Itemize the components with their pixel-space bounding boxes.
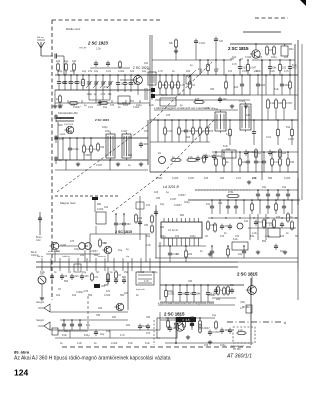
svg-text:33: 33: [205, 235, 208, 238]
svg-text:470: 470: [146, 332, 151, 335]
svg-text:47k: 47k: [228, 70, 233, 73]
svg-text:33: 33: [176, 253, 179, 256]
svg-text:120: 120: [154, 191, 159, 194]
svg-text:1µ: 1µ: [172, 156, 175, 159]
svg-text:470: 470: [220, 235, 225, 238]
svg-text:(7W): (7W): [240, 302, 245, 304]
svg-text:68k: 68k: [195, 130, 200, 133]
svg-text:Magnó rész: Magnó rész: [60, 201, 76, 205]
svg-text:2 SC 1815: 2 SC 1815: [228, 46, 249, 51]
svg-text:330: 330: [210, 88, 215, 91]
svg-text:100µ: 100µ: [84, 334, 90, 337]
svg-text:a pontvonallal bekeretezett ré: a pontvonallal bekeretezett rész a hangs…: [158, 302, 215, 305]
svg-text:10µ: 10µ: [58, 70, 63, 73]
svg-text:220: 220: [220, 177, 225, 180]
svg-text:100: 100: [133, 83, 138, 86]
svg-text:2.2k: 2.2k: [188, 156, 193, 159]
svg-text:10k: 10k: [226, 148, 231, 151]
svg-text:2 SC 1815: 2 SC 1815: [115, 230, 132, 234]
svg-text:Rádió rész: Rádió rész: [66, 27, 81, 31]
svg-text:a hálózati szaggatott vonallal: a hálózati szaggatott vonallal jelölt ré…: [154, 107, 215, 110]
svg-text:100µ: 100µ: [210, 224, 216, 227]
svg-text:8.2k: 8.2k: [274, 88, 279, 91]
svg-text:10µ: 10µ: [160, 203, 165, 206]
svg-text:0.01: 0.01: [88, 106, 93, 109]
svg-text:33: 33: [58, 288, 61, 291]
svg-text:0.01: 0.01: [260, 84, 265, 87]
svg-text:0.022: 0.022: [239, 100, 246, 103]
svg-text:8.2k: 8.2k: [40, 271, 45, 274]
svg-text:1µ: 1µ: [93, 148, 96, 151]
svg-text:1k: 1k: [118, 106, 121, 109]
svg-text:15k: 15k: [112, 316, 117, 319]
svg-text:330: 330: [144, 224, 149, 227]
svg-text:100: 100: [204, 177, 209, 180]
svg-text:100µ: 100µ: [102, 126, 108, 129]
svg-text:0.022: 0.022: [248, 151, 255, 154]
svg-text:1k: 1k: [60, 342, 63, 345]
svg-text:100µ: 100µ: [190, 235, 196, 238]
svg-text:8.2k: 8.2k: [128, 342, 133, 345]
svg-text:15k: 15k: [250, 235, 255, 238]
svg-text:4.7k: 4.7k: [158, 70, 163, 73]
svg-text:0.047: 0.047: [170, 198, 177, 201]
svg-text:10µ: 10µ: [64, 60, 69, 63]
svg-text:0.0047: 0.0047: [212, 331, 220, 334]
svg-text:LA 3201 B: LA 3201 B: [163, 185, 179, 189]
svg-text:4.7: 4.7: [240, 307, 244, 310]
svg-text:100: 100: [186, 70, 191, 73]
svg-text:47k: 47k: [146, 204, 151, 207]
svg-text:0.0047: 0.0047: [90, 250, 98, 253]
svg-text:8.2k: 8.2k: [62, 334, 67, 337]
svg-text:120: 120: [258, 56, 263, 59]
svg-text:100µ: 100µ: [220, 344, 226, 347]
svg-text:Mikr: Mikr: [97, 203, 102, 206]
svg-text:0.047: 0.047: [288, 138, 295, 141]
svg-text:470: 470: [209, 130, 214, 133]
svg-text:4.7k: 4.7k: [180, 84, 185, 87]
svg-text:2 SC 1815: 2 SC 1815: [237, 271, 258, 276]
svg-text:33: 33: [59, 159, 62, 162]
svg-text:0.01: 0.01: [167, 130, 172, 133]
svg-text:FM ant: FM ant: [37, 36, 44, 39]
svg-text:4.7k: 4.7k: [120, 334, 125, 337]
svg-text:33: 33: [104, 242, 107, 245]
svg-text:470: 470: [110, 104, 115, 107]
svg-text:1µ: 1µ: [126, 248, 129, 251]
svg-text:10µ: 10µ: [118, 249, 123, 252]
svg-text:330: 330: [96, 314, 101, 317]
svg-text:10µ: 10µ: [82, 271, 87, 274]
svg-text:47k: 47k: [104, 86, 109, 89]
svg-text:15k: 15k: [108, 93, 113, 96]
svg-text:2.2k: 2.2k: [252, 177, 257, 180]
svg-text:0.0047: 0.0047: [202, 327, 210, 330]
svg-text:10µ: 10µ: [94, 70, 99, 73]
svg-text:100µ: 100µ: [152, 271, 158, 274]
svg-text:0.0047: 0.0047: [73, 106, 81, 109]
svg-text:220: 220: [56, 60, 61, 63]
svg-text:0.01: 0.01: [236, 177, 241, 180]
svg-text:0.022: 0.022: [245, 56, 252, 59]
svg-text:2.2k: 2.2k: [146, 244, 151, 247]
svg-text:0.022: 0.022: [156, 177, 163, 180]
svg-text:8.2k: 8.2k: [292, 64, 297, 67]
svg-text:220: 220: [126, 324, 131, 327]
svg-text:100: 100: [219, 40, 224, 43]
svg-text:0.0047: 0.0047: [174, 204, 182, 207]
svg-text:68k: 68k: [122, 276, 127, 279]
svg-text:MW: MW: [58, 124, 63, 127]
svg-text:0.022: 0.022: [133, 106, 140, 109]
svg-text:10µ: 10µ: [82, 70, 87, 73]
svg-text:8.2k: 8.2k: [149, 104, 154, 107]
svg-text:15k: 15k: [230, 284, 235, 287]
svg-text:TR1 BF: TR1 BF: [79, 48, 87, 50]
svg-text:0.022: 0.022: [72, 148, 79, 151]
svg-text:4.7k: 4.7k: [101, 93, 106, 96]
svg-text:10µ: 10µ: [142, 70, 147, 73]
svg-text:560: 560: [126, 223, 131, 226]
svg-text:47k: 47k: [94, 276, 99, 279]
svg-text:120: 120: [172, 327, 177, 330]
svg-text:4.7k: 4.7k: [226, 133, 231, 136]
svg-text:100: 100: [58, 106, 63, 109]
svg-text:1µ: 1µ: [258, 152, 261, 155]
svg-text:4.7k: 4.7k: [144, 280, 149, 283]
svg-text:15k: 15k: [64, 330, 69, 333]
svg-text:15k: 15k: [214, 108, 219, 111]
svg-text:hangsz.: hangsz.: [36, 301, 45, 304]
svg-text:0.0047: 0.0047: [178, 194, 186, 197]
svg-text:4.7k: 4.7k: [284, 70, 289, 73]
svg-text:1k: 1k: [290, 216, 293, 219]
svg-text:220: 220: [188, 253, 193, 256]
svg-text:560: 560: [88, 294, 93, 297]
svg-text:330: 330: [190, 316, 195, 319]
svg-text:100µ: 100µ: [105, 130, 111, 133]
svg-text:10µ: 10µ: [70, 70, 75, 73]
svg-text:1µ: 1µ: [128, 164, 131, 167]
svg-text:2 SC 1923: 2 SC 1923: [87, 41, 108, 46]
svg-text:0.01: 0.01: [106, 70, 111, 73]
svg-text:100µ: 100µ: [271, 56, 277, 59]
svg-text:220: 220: [74, 275, 79, 278]
svg-text:120: 120: [246, 114, 251, 117]
svg-text:AJ 1k 3x: AJ 1k 3x: [168, 228, 179, 232]
svg-text:220: 220: [254, 70, 259, 73]
svg-text:100: 100: [282, 152, 287, 155]
svg-text:100: 100: [143, 143, 148, 146]
svg-text:470: 470: [174, 84, 179, 87]
svg-text:8.2k: 8.2k: [270, 70, 275, 73]
svg-text:1k: 1k: [110, 271, 113, 274]
svg-text:10k: 10k: [56, 294, 61, 297]
svg-text:220: 220: [216, 298, 221, 301]
svg-text:120: 120: [72, 60, 77, 63]
svg-text:Középhullám AM: Középhullám AM: [58, 111, 77, 115]
svg-text:1µ: 1µ: [84, 104, 87, 107]
svg-text:Bal ki: Bal ki: [31, 252, 37, 254]
svg-text:Jobb be: Jobb be: [62, 256, 71, 258]
svg-text:hangsz.: hangsz.: [36, 319, 45, 322]
svg-text:120: 120: [280, 235, 285, 238]
svg-text:R21: R21: [289, 48, 294, 51]
svg-text:470: 470: [269, 49, 274, 52]
svg-text:47k: 47k: [106, 290, 111, 293]
svg-text:AT 360/1/1: AT 360/1/1: [226, 354, 252, 360]
svg-text:220: 220: [122, 102, 127, 105]
svg-text:hálózati rész: hálózati rész: [231, 345, 245, 348]
svg-text:89. ábra: 89. ábra: [14, 350, 30, 355]
svg-text:220: 220: [138, 217, 143, 220]
svg-text:10µ: 10µ: [103, 106, 108, 109]
svg-text:100: 100: [84, 275, 89, 278]
svg-text:15k: 15k: [80, 254, 85, 257]
svg-text:0.047: 0.047: [60, 244, 67, 247]
svg-text:68k: 68k: [86, 324, 91, 327]
svg-text:1k: 1k: [200, 70, 203, 73]
svg-text:220: 220: [128, 154, 133, 157]
svg-text:1k: 1k: [226, 161, 229, 164]
svg-text:120: 120: [234, 86, 239, 89]
svg-text:2 SC 1815: 2 SC 1815: [164, 311, 185, 316]
svg-text:D1: D1: [158, 153, 162, 155]
svg-text:0.022: 0.022: [199, 42, 206, 45]
svg-text:100µ: 100µ: [160, 235, 166, 238]
svg-text:33: 33: [192, 84, 195, 87]
svg-text:330: 330: [100, 146, 105, 149]
svg-text:oszc.: oszc.: [60, 133, 66, 136]
svg-text:0.022: 0.022: [104, 294, 111, 297]
svg-text:220: 220: [186, 136, 191, 139]
svg-text:330: 330: [156, 197, 161, 200]
svg-text:10k: 10k: [72, 294, 77, 297]
svg-text:0.047: 0.047: [188, 177, 195, 180]
svg-text:0.022: 0.022: [172, 177, 179, 180]
svg-text:100µ: 100µ: [168, 290, 174, 293]
svg-text:0.01: 0.01: [242, 70, 247, 73]
svg-text:15k: 15k: [262, 186, 267, 189]
svg-text:100µ: 100µ: [87, 93, 93, 96]
svg-text:mikr.: mikr.: [36, 239, 41, 242]
svg-text:100µ: 100µ: [74, 248, 80, 251]
svg-text:8.2k: 8.2k: [145, 342, 150, 345]
svg-text:33: 33: [96, 271, 99, 274]
svg-text:15k: 15k: [286, 126, 291, 129]
svg-text:10µ: 10µ: [100, 333, 105, 336]
svg-text:8.2k: 8.2k: [233, 238, 238, 241]
svg-text:0.0047: 0.0047: [84, 154, 92, 157]
svg-text:68k: 68k: [180, 214, 185, 217]
svg-text:2SC1815: 2SC1815: [64, 124, 74, 126]
svg-text:68k: 68k: [162, 84, 167, 87]
svg-text:1k: 1k: [224, 232, 227, 235]
svg-text:220: 220: [98, 307, 103, 310]
svg-text:1k: 1k: [94, 342, 97, 345]
svg-text:0.047: 0.047: [121, 130, 128, 133]
svg-text:100: 100: [104, 206, 109, 209]
svg-text:10k: 10k: [206, 126, 211, 129]
svg-text:Bal be: Bal be: [37, 256, 44, 258]
svg-text:0.022: 0.022: [284, 177, 291, 180]
svg-text:124: 124: [14, 368, 28, 378]
svg-text:33: 33: [68, 271, 71, 274]
svg-text:330: 330: [218, 202, 223, 205]
svg-text:1µ: 1µ: [94, 93, 97, 96]
svg-text:2.2k: 2.2k: [252, 232, 257, 235]
svg-text:TR 360: TR 360: [233, 349, 241, 351]
svg-text:1k: 1k: [200, 250, 203, 253]
svg-text:0.0047: 0.0047: [208, 294, 216, 297]
svg-text:100: 100: [62, 82, 67, 85]
svg-text:470: 470: [70, 240, 75, 243]
svg-text:kimenet: kimenet: [98, 255, 106, 258]
svg-text:330: 330: [290, 161, 295, 164]
svg-text:330: 330: [188, 280, 193, 283]
svg-text:220: 220: [170, 86, 175, 89]
svg-text:470: 470: [195, 98, 200, 101]
svg-text:470: 470: [204, 344, 209, 347]
svg-text:2.2k: 2.2k: [86, 148, 91, 151]
svg-text:FM IF: FM IF: [161, 94, 168, 97]
svg-text:100: 100: [222, 98, 227, 101]
svg-text:100µ: 100µ: [284, 84, 290, 87]
svg-text:1k: 1k: [172, 70, 175, 73]
svg-text:47k: 47k: [175, 235, 180, 238]
svg-text:10µ: 10µ: [212, 314, 217, 317]
svg-text:10k: 10k: [232, 56, 237, 59]
svg-text:elektronika: elektronika: [48, 250, 59, 253]
svg-text:560: 560: [64, 280, 69, 283]
svg-text:1µ: 1µ: [166, 191, 169, 194]
svg-text:Az Akai AJ 360 H típusú rádió-: Az Akai AJ 360 H típusú rádió-magnó áram…: [14, 356, 171, 362]
svg-text:560: 560: [262, 240, 267, 243]
svg-text:1k: 1k: [286, 232, 289, 235]
svg-text:10µ: 10µ: [146, 235, 151, 238]
svg-text:2.2k: 2.2k: [96, 48, 101, 51]
svg-text:470: 470: [235, 235, 240, 238]
svg-text:0.022: 0.022: [138, 271, 145, 274]
svg-text:120: 120: [284, 56, 289, 59]
svg-text:1k: 1k: [136, 294, 139, 297]
svg-text:táp: táp: [126, 255, 130, 258]
svg-text:470k: 470k: [228, 191, 234, 194]
svg-text:470: 470: [144, 130, 149, 133]
svg-text:330: 330: [278, 102, 283, 105]
svg-text:10k: 10k: [206, 203, 211, 206]
svg-text:33: 33: [118, 274, 121, 277]
svg-text:10k: 10k: [244, 220, 249, 223]
svg-text:0.022: 0.022: [97, 208, 104, 211]
svg-text:1k: 1k: [54, 271, 57, 274]
svg-text:330: 330: [272, 151, 277, 154]
svg-text:0.047: 0.047: [96, 164, 103, 167]
svg-text:0.022: 0.022: [118, 70, 125, 73]
svg-text:68k: 68k: [196, 293, 201, 296]
svg-text:A: A: [284, 321, 287, 325]
svg-text:10µ: 10µ: [280, 250, 285, 253]
svg-text:TR7: TR7: [230, 59, 235, 61]
svg-text:2.2k: 2.2k: [77, 342, 82, 345]
svg-text:100: 100: [276, 216, 281, 219]
svg-text:4.7k: 4.7k: [232, 63, 237, 66]
svg-text:220: 220: [188, 130, 193, 133]
svg-text:10k: 10k: [144, 62, 149, 65]
svg-text:0.022: 0.022: [66, 130, 73, 133]
svg-text:220: 220: [160, 226, 165, 229]
svg-text:10k: 10k: [282, 186, 287, 189]
svg-text:2.2k: 2.2k: [238, 329, 243, 332]
svg-text:0.01: 0.01: [266, 136, 271, 139]
svg-text:10µ: 10µ: [238, 253, 243, 256]
svg-text:100µ: 100µ: [216, 155, 222, 158]
svg-text:2 SC 1815: 2 SC 1815: [95, 118, 110, 122]
svg-text:330: 330: [146, 316, 151, 319]
svg-text:560: 560: [268, 177, 273, 180]
svg-text:330: 330: [214, 70, 219, 73]
svg-text:470: 470: [84, 290, 89, 293]
svg-text:470: 470: [166, 114, 171, 117]
svg-text:120: 120: [84, 245, 89, 248]
svg-text:33: 33: [64, 275, 67, 278]
svg-text:kapcsoló: kapcsoló: [136, 289, 145, 291]
svg-text:0.022: 0.022: [111, 342, 118, 345]
svg-text:68k: 68k: [169, 42, 174, 45]
svg-text:220: 220: [124, 292, 129, 295]
svg-text:120: 120: [130, 70, 135, 73]
svg-text:0.047: 0.047: [286, 102, 293, 105]
svg-text:1µ: 1µ: [190, 64, 193, 67]
svg-text:47k: 47k: [88, 70, 93, 73]
svg-text:100µ: 100µ: [184, 201, 190, 204]
svg-text:4.7k: 4.7k: [269, 224, 274, 227]
svg-text:0.01: 0.01: [258, 221, 263, 224]
